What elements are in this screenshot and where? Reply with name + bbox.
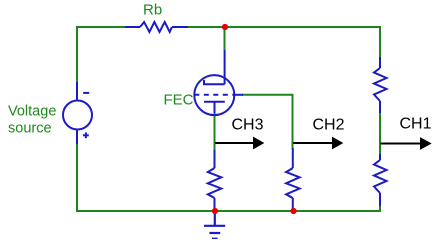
cathode lead — [214, 102, 216, 113]
resistor below FEC — [208, 150, 222, 209]
grid stub — [234, 94, 243, 96]
resistor CH2 branch — [286, 148, 300, 209]
wire grid to CH2 branch — [242, 95, 293, 149]
svg-text:Voltage: Voltage — [8, 104, 56, 120]
resistor Rb — [125, 22, 188, 32]
wire left vertical below source, bottom rail, right riser — [77, 144, 380, 212]
plate electrode — [204, 80, 225, 84]
wire right vertical middle segment — [379, 112, 381, 155]
svg-text:source: source — [8, 121, 52, 137]
resistor right upper — [374, 57, 387, 113]
node junction bottom right — [290, 208, 296, 214]
resistor right lower — [374, 154, 387, 206]
wire cathode down to CH3 node — [214, 112, 216, 151]
voltage source V1 — [63, 82, 92, 144]
wire plate drop from top junction — [224, 27, 226, 50]
svg-text:CH1: CH1 — [400, 116, 432, 133]
ground — [204, 211, 225, 239]
cathode electrode — [204, 101, 225, 103]
tube FEC — [194, 50, 243, 115]
node junction bottom left — [212, 208, 218, 214]
arrow CH3 — [215, 137, 264, 150]
wire top rail left segment — [77, 27, 125, 82]
grid dashed electrode — [194, 94, 234, 96]
svg-text:Rb: Rb — [143, 2, 162, 19]
wire top rail right segment — [188, 27, 380, 58]
node junction top — [222, 24, 228, 30]
svg-text:CH2: CH2 — [313, 117, 345, 134]
arrow CH2 — [293, 137, 343, 150]
arrow CH1 — [381, 137, 432, 150]
svg-text:FEC: FEC — [164, 92, 194, 109]
svg-text:CH3: CH3 — [232, 117, 264, 134]
plate lead — [224, 50, 226, 84]
